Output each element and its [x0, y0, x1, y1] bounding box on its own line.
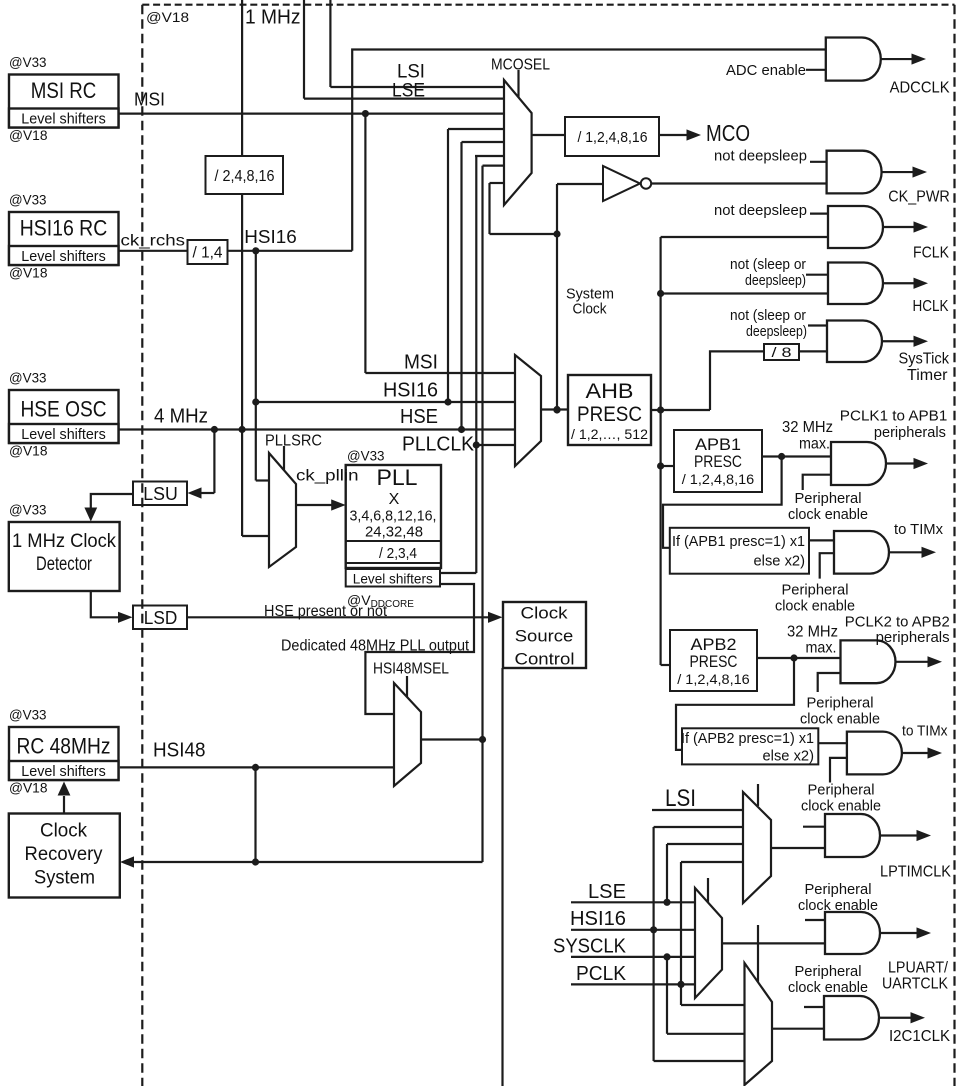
svg-text:LSI: LSI [665, 785, 696, 812]
svg-text:1 MHz Clock: 1 MHz Clock [12, 530, 116, 552]
svg-text:PCLK2 to APB2: PCLK2 to APB2 [845, 614, 950, 631]
svg-text:3,4,6,8,12,16,: 3,4,6,8,12,16, [350, 509, 437, 525]
svg-text:@V18: @V18 [9, 444, 48, 459]
svg-text:Recovery: Recovery [25, 843, 103, 865]
svg-text:@V18: @V18 [146, 9, 189, 25]
svg-text:clock enable: clock enable [798, 897, 878, 914]
svg-text:Clock: Clock [573, 301, 607, 318]
svg-text:HSI16: HSI16 [570, 908, 626, 930]
svg-text:Peripheral: Peripheral [782, 582, 849, 599]
svg-text:ADC enable: ADC enable [726, 62, 806, 79]
svg-text:Level shifters: Level shifters [21, 763, 106, 780]
svg-text:clock enable: clock enable [800, 711, 880, 728]
svg-text:Peripheral: Peripheral [795, 963, 862, 980]
svg-text:PRESC: PRESC [694, 453, 742, 471]
svg-text:/ 2,4,8,16: / 2,4,8,16 [215, 168, 275, 185]
svg-text:Detector: Detector [36, 553, 92, 575]
svg-text:Level shifters: Level shifters [21, 426, 106, 443]
svg-text:@V18: @V18 [9, 128, 48, 143]
svg-text:peripherals: peripherals [876, 629, 950, 646]
svg-text:else x2): else x2) [763, 748, 815, 765]
svg-text:APB2: APB2 [691, 636, 737, 654]
svg-text:not (sleep or: not (sleep or [730, 307, 806, 324]
svg-text:LSE: LSE [588, 881, 626, 903]
svg-text:not deepsleep: not deepsleep [714, 202, 807, 219]
svg-text:PRESC: PRESC [577, 403, 642, 426]
svg-text:Control: Control [515, 650, 575, 669]
svg-text:Peripheral: Peripheral [807, 695, 874, 712]
svg-text:/ 8: / 8 [772, 344, 792, 360]
svg-text:LPUART/: LPUART/ [888, 960, 948, 977]
svg-text:clock enable: clock enable [801, 798, 881, 815]
svg-text:32 MHz: 32 MHz [787, 624, 838, 641]
svg-text:HSI48: HSI48 [153, 740, 206, 762]
svg-text:peripherals: peripherals [874, 424, 946, 441]
svg-text:LPTIMCLK: LPTIMCLK [880, 864, 951, 881]
svg-text:@V33: @V33 [9, 193, 47, 208]
svg-text:LSE: LSE [392, 81, 425, 102]
svg-text:Peripheral: Peripheral [808, 782, 875, 799]
svg-text:I2C1CLK: I2C1CLK [889, 1028, 950, 1045]
svg-text:max.: max. [806, 640, 837, 657]
svg-text:APB1: APB1 [695, 436, 741, 454]
svg-text:RC 48MHz: RC 48MHz [17, 734, 111, 759]
svg-text:PLLSRC: PLLSRC [265, 433, 322, 450]
svg-text:LSD: LSD [144, 608, 178, 628]
svg-text:HSE present or not: HSE present or not [264, 603, 388, 620]
svg-text:MCOSEL: MCOSEL [491, 57, 550, 74]
svg-text:32 MHz: 32 MHz [782, 419, 833, 436]
svg-text:@V33: @V33 [9, 503, 47, 518]
svg-text:UARTCLK: UARTCLK [882, 976, 948, 993]
svg-text:SYSCLK: SYSCLK [553, 936, 627, 958]
svg-text:@V18: @V18 [9, 781, 48, 796]
svg-text:HCLK: HCLK [913, 298, 949, 315]
svg-text:1 MHz: 1 MHz [245, 7, 301, 29]
svg-text:else x2): else x2) [754, 553, 806, 570]
svg-text:SysTick: SysTick [899, 351, 950, 368]
svg-text:PLLCLK: PLLCLK [402, 434, 475, 456]
svg-text:/ 2,3,4: / 2,3,4 [379, 545, 417, 562]
svg-text:If (APB1 presc=1) x1: If (APB1 presc=1) x1 [672, 533, 805, 550]
svg-text:/ 1,4: / 1,4 [193, 245, 223, 262]
svg-text:FCLK: FCLK [913, 245, 949, 262]
svg-text:MSI: MSI [404, 352, 438, 374]
svg-text:PLL: PLL [377, 465, 418, 490]
svg-text:/ 1,2,4,8,16: / 1,2,4,8,16 [682, 471, 755, 487]
svg-text:Level shifters: Level shifters [21, 111, 106, 128]
svg-text:clock enable: clock enable [788, 979, 868, 996]
svg-text:Peripheral: Peripheral [795, 490, 862, 507]
svg-text:Source: Source [515, 627, 574, 646]
svg-text:Level shifters: Level shifters [353, 571, 433, 587]
svg-text:Level shifters: Level shifters [21, 248, 106, 265]
svg-text:@V33: @V33 [347, 449, 385, 464]
svg-text:clock enable: clock enable [788, 506, 868, 523]
svg-text:Dedicated 48MHz PLL output: Dedicated 48MHz PLL output [281, 638, 470, 655]
svg-text:to TIMx: to TIMx [902, 723, 948, 740]
svg-text:clock enable: clock enable [775, 598, 855, 615]
svg-text:24,32,48: 24,32,48 [365, 525, 423, 541]
svg-text:X: X [389, 491, 400, 508]
svg-text:PRESC: PRESC [690, 653, 738, 671]
svg-text:Clock: Clock [40, 820, 87, 842]
svg-text:HSI48MSEL: HSI48MSEL [373, 661, 449, 678]
svg-text:HSE: HSE [400, 406, 438, 428]
svg-text:4 MHz: 4 MHz [154, 406, 208, 428]
svg-text:LSI: LSI [397, 62, 425, 83]
svg-text:PCLK1 to APB1: PCLK1 to APB1 [840, 408, 948, 425]
svg-text:ck_pllin: ck_pllin [296, 468, 359, 485]
svg-text:/ 1,2,…, 512: / 1,2,…, 512 [571, 426, 648, 442]
svg-text:deepsleep): deepsleep) [745, 272, 806, 289]
svg-text:max.: max. [799, 436, 830, 453]
svg-text:@V33: @V33 [9, 708, 47, 723]
svg-text:HSI16: HSI16 [244, 227, 296, 247]
svg-text:/ 1,2,4,8,16: / 1,2,4,8,16 [677, 671, 750, 687]
svg-text:@V33: @V33 [9, 371, 47, 386]
svg-text:not (sleep or: not (sleep or [730, 256, 806, 273]
svg-text:not deepsleep: not deepsleep [714, 148, 807, 165]
svg-text:MSI RC: MSI RC [31, 78, 97, 103]
svg-text:AHB: AHB [586, 380, 634, 403]
svg-text:Timer: Timer [907, 367, 948, 384]
svg-text:HSE OSC: HSE OSC [21, 397, 107, 422]
svg-text:LSU: LSU [143, 484, 178, 504]
svg-text:/ 1,2,4,8,16: / 1,2,4,8,16 [578, 129, 648, 146]
svg-text:ADCCLK: ADCCLK [890, 80, 950, 97]
svg-text:deepsleep): deepsleep) [746, 323, 807, 340]
svg-text:Peripheral: Peripheral [805, 881, 872, 898]
svg-text:System: System [34, 867, 95, 889]
svg-text:HSI16: HSI16 [383, 380, 438, 402]
svg-text:CK_PWR: CK_PWR [888, 189, 950, 206]
svg-text:to TIMx: to TIMx [894, 521, 943, 538]
svg-text:@V33: @V33 [9, 55, 47, 70]
svg-text:Clock: Clock [521, 604, 569, 623]
svg-text:PCLK: PCLK [576, 963, 627, 985]
svg-text:MSI: MSI [134, 90, 165, 110]
svg-text:MCO: MCO [706, 120, 750, 146]
svg-text:@V18: @V18 [9, 266, 48, 281]
svg-text:If (APB2 presc=1) x1: If (APB2 presc=1) x1 [681, 730, 814, 747]
svg-text:ck_rchs: ck_rchs [121, 233, 186, 250]
svg-text:HSI16 RC: HSI16 RC [20, 216, 108, 241]
